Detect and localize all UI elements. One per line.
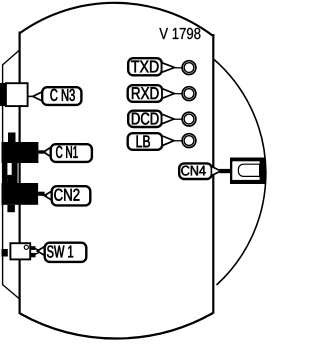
connector CN2 bottom tab	[7, 205, 14, 212]
label RXD	[128, 85, 163, 102]
CN1 lower H tab	[3, 163, 18, 183]
label CN3	[42, 87, 81, 105]
bracket vertical edge	[2, 65, 4, 286]
text V1798	[159, 28, 200, 39]
CN1 pointer nub	[38, 150, 43, 153]
TXD stub	[172, 67, 182, 69]
label CN4	[179, 163, 212, 179]
label LB	[128, 133, 163, 150]
LED DCD	[182, 112, 196, 126]
label TXD	[128, 58, 162, 75]
RXD stub	[172, 93, 182, 95]
SW1 callout stubs	[35, 249, 40, 251]
DCD callout wedge	[163, 114, 175, 123]
connector CN2 top tab	[7, 177, 14, 184]
CN2 callout wedge	[44, 191, 52, 200]
CN4 pointer nub	[220, 169, 231, 173]
connector CN1 top tab	[8, 133, 16, 143]
label DCD	[128, 111, 162, 127]
RXD callout wedge	[163, 89, 174, 98]
connector CN3 body	[6, 83, 28, 106]
TXD callout wedge	[163, 63, 175, 72]
CN3 callout wedge	[33, 92, 43, 101]
LED RXD	[182, 87, 196, 101]
label CN2	[52, 186, 91, 205]
connector CN3 black rear block	[0, 83, 5, 106]
LED TXD	[182, 61, 196, 75]
CN1 callout stub	[43, 151, 47, 153]
SW1 upper nub	[31, 246, 36, 250]
LED LB	[182, 134, 196, 148]
CN2 pointer nub	[38, 192, 45, 196]
board top edge (curved)	[20, 3, 213, 36]
CN1 callout wedge	[43, 147, 51, 156]
switch SW1 body	[10, 243, 30, 259]
CN2 callout stub	[44, 195, 48, 197]
CN3 callout stub	[28, 95, 34, 97]
label CN1	[51, 144, 92, 162]
DCD stub	[172, 118, 182, 120]
connector CN4 inner cavity	[232, 161, 259, 180]
SW1 callout wedge	[37, 246, 45, 255]
LB stub	[172, 140, 182, 142]
connector CN4 outer body	[230, 158, 266, 185]
switch SW1 rear square	[2, 249, 8, 257]
lens circle right arc	[214, 59, 266, 285]
label SW1	[45, 243, 87, 262]
CN4 callout wedge	[212, 167, 221, 176]
SW1 lower nub	[31, 253, 36, 257]
bracket top diagonal	[2, 51, 19, 66]
SW1 screw circle	[24, 245, 28, 249]
board left edge	[19, 32, 21, 315]
connector CN1 body	[2, 142, 39, 163]
board right edge	[212, 34, 214, 314]
bracket bottom diagonal	[2, 285, 19, 299]
LB callout wedge	[163, 136, 174, 145]
connector CN2 body	[2, 183, 39, 205]
connector CN4 barrel opening	[238, 164, 259, 176]
board bottom edge (curved)	[20, 313, 213, 339]
